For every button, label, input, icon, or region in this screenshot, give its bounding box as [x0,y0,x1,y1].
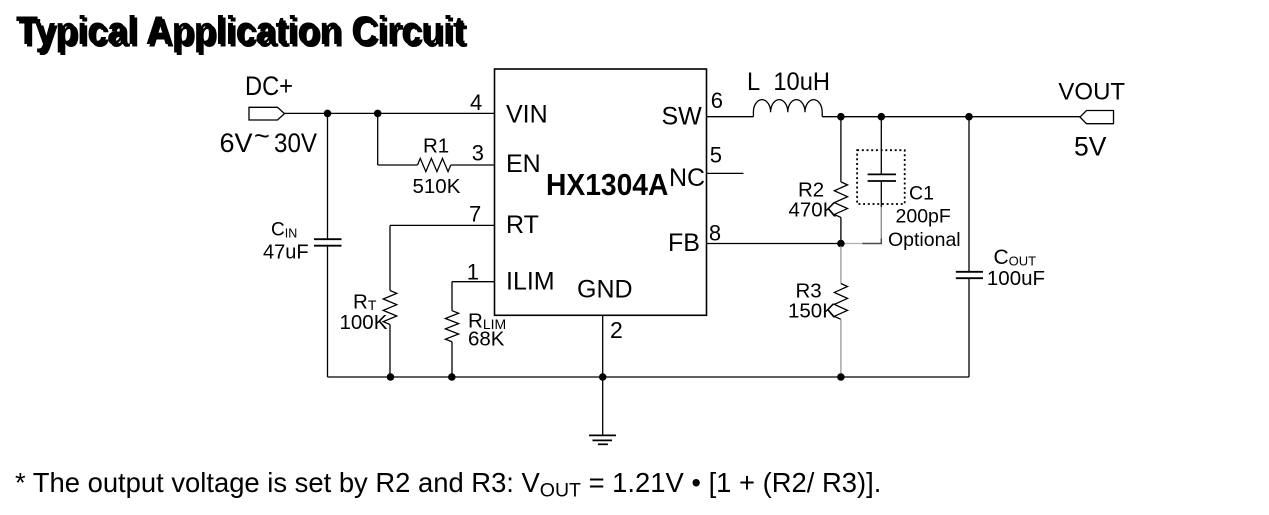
svg-text:510K: 510K [413,175,461,198]
capacitor C1 plates [868,174,896,181]
svg-text:150K: 150K [788,300,836,323]
svg-text:100K: 100K [340,311,388,334]
wire RT vertical [389,225,391,290]
svg-text:R1: R1 [423,135,449,158]
wire ILIM pin to corner [452,281,495,283]
wire RLIM to ground rail [451,342,453,377]
svg-text:* The output voltage is set by: * The output voltage is set by R2 and R3… [15,467,881,502]
junction FB node [837,240,845,248]
svg-text:SW: SW [662,103,703,131]
wire EN branch vertical [377,113,379,165]
capacitor C1 top lead [880,117,882,174]
capacitor COUT bottom lead [968,279,970,377]
svg-text:200pF: 200pF [896,206,951,228]
svg-text:47uF: 47uF [263,242,309,264]
inductor L 10uH [753,100,822,117]
svg-text:8: 8 [709,221,721,246]
svg-text:ILIM: ILIM [506,268,555,296]
svg-text:FB: FB [668,229,700,257]
svg-text:5V: 5V [1074,131,1107,161]
junction RT ground [387,373,395,381]
svg-text:~: ~ [254,121,270,151]
svg-text:1: 1 [467,260,479,285]
svg-text:470K: 470K [789,199,837,222]
wire GND pin 2 vertical [602,316,604,436]
wire inductor to VOUT [822,116,1080,118]
resistor R3 [834,284,847,320]
svg-text:L 10uH: L 10uH [747,68,830,96]
wire RT pin to corner [390,224,495,226]
wire NC stub [707,172,744,174]
svg-text:4: 4 [470,90,482,115]
junction COUT tap [965,113,973,121]
svg-text:3: 3 [472,141,484,166]
svg-text:GND: GND [577,276,633,304]
junction C1 tap [878,113,886,121]
wire R3 lower lead grey [840,319,842,375]
wire EN branch to R1 [378,164,418,166]
svg-text:C1: C1 [909,182,934,204]
svg-text:NC: NC [669,164,705,192]
capacitor CIN plates [314,239,342,246]
svg-text:6: 6 [711,88,723,113]
junction R2 tap [837,113,845,121]
svg-text:2: 2 [610,317,623,343]
svg-text:EN: EN [506,150,541,178]
capacitor COUT plates [956,272,983,278]
svg-text:RT: RT [506,211,539,239]
svg-text:VOUT: VOUT [1058,79,1125,106]
svg-text:CIN: CIN [271,220,297,241]
wire R3 upper lead grey [840,246,842,284]
resistor R1 [418,158,451,171]
resistor RLIM [445,311,458,342]
junction R3 ground [837,373,845,381]
svg-text:6V: 6V [220,128,253,158]
IC U1 HX1304A body [495,69,707,315]
connector J1 DC+ input [249,107,285,120]
svg-text:VIN: VIN [506,101,548,129]
capacitor CIN top lead [327,113,329,238]
resistor R2 [834,182,847,218]
connector J2 VOUT output [1080,111,1114,124]
wire input rail DC+ to VIN [285,112,495,114]
wire R2 upper lead [840,117,842,182]
wire SW pin to inductor [707,116,754,118]
resistor RT [383,291,397,325]
svg-text:DC+: DC+ [245,71,293,101]
capacitor COUT top lead [968,117,970,271]
wire FB pin to node [707,243,842,245]
wire R2 lower lead to FB [840,217,842,243]
svg-text:Optional: Optional [888,229,961,251]
wire ILIM vertical [451,282,453,311]
ground symbol [589,435,616,444]
svg-text:7: 7 [469,201,481,226]
svg-text:Typical Application Circuit: Typical Application Circuit [16,9,465,53]
svg-text:5: 5 [710,142,722,167]
svg-text:30V: 30V [274,128,317,158]
wire C1 to FB node grey [845,243,865,245]
capacitor CIN bottom lead [327,247,329,377]
wire R1 to pin EN [451,164,495,166]
junction CIN tap [324,110,332,118]
wire C1 lower lead grey part [880,207,882,243]
svg-text:HX1304A: HX1304A [546,167,668,202]
dashed optional box around C1 [857,150,905,204]
junction GND pin ground [599,373,607,381]
svg-text:COUT: COUT [994,246,1037,269]
svg-text:100uF: 100uF [987,267,1045,290]
capacitor C1 lower lead [880,182,882,207]
wire C1 to FB node [863,239,882,244]
wire RT to ground rail [389,325,391,378]
svg-text:68K: 68K [468,328,505,351]
junction RLIM ground [448,373,456,381]
junction EN tap [374,110,382,118]
wire ground rail [328,376,970,378]
